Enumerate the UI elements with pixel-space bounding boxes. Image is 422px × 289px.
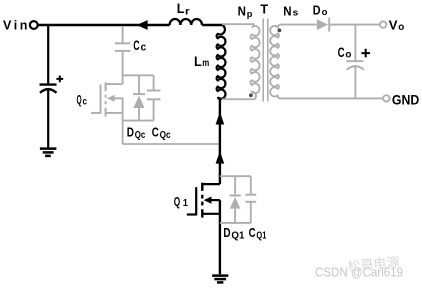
svg-text:L: L <box>194 54 202 69</box>
wire top main (Vin to Lr) <box>37 24 169 26</box>
label GND <box>392 92 420 107</box>
terminal Vo <box>380 21 386 27</box>
transformer winding Np <box>222 24 260 99</box>
wire Qc source down <box>122 98 124 145</box>
svg-text:o: o <box>398 21 404 33</box>
label + of Co <box>361 49 370 58</box>
watermark chinese <box>347 255 400 274</box>
phase dot Np <box>249 93 253 97</box>
svg-text:V: V <box>389 18 398 33</box>
svg-text:N: N <box>283 4 291 18</box>
ground (input) <box>40 149 57 156</box>
capacitor Cc <box>115 43 130 51</box>
wire Lr to Lm node <box>202 24 223 26</box>
arrow current up (below clamp junction) <box>216 151 225 164</box>
label DQc <box>127 125 146 141</box>
wire Cc branch from top wire <box>122 26 124 43</box>
label Np <box>238 4 253 19</box>
label T <box>260 2 268 17</box>
svg-text:r: r <box>185 5 190 17</box>
phase dot Ns <box>278 29 282 33</box>
transistor Qc (clamp MOSFET) <box>91 82 123 116</box>
svg-text:GND: GND <box>392 92 420 107</box>
wire Cc to clamp rail <box>122 52 124 85</box>
svg-text:s: s <box>293 8 299 18</box>
svg-text:o: o <box>345 48 351 60</box>
svg-text:Q: Q <box>174 195 181 209</box>
svg-text:D: D <box>313 4 321 18</box>
label Vin <box>3 18 30 32</box>
watermark CSDN <box>315 265 403 280</box>
transformer winding Ns <box>270 25 383 99</box>
label Cc <box>133 37 146 53</box>
svg-text:L: L <box>177 1 185 16</box>
wire primary node vertical <box>219 98 221 275</box>
wire Co branch <box>354 25 356 61</box>
ground (main, below Q1) <box>212 276 228 283</box>
svg-text:p: p <box>247 9 253 19</box>
svg-text:c: c <box>141 42 147 54</box>
label Lm <box>194 54 209 69</box>
svg-text:o: o <box>322 7 328 17</box>
svg-text:Q1: Q1 <box>231 231 244 242</box>
svg-text:D: D <box>223 226 230 240</box>
svg-text:Vin: Vin <box>3 18 30 32</box>
svg-text:C: C <box>249 226 256 240</box>
wire clamp rail bottom <box>123 120 154 122</box>
label Vo <box>389 18 405 33</box>
capacitor Cin (input electrolytic) <box>40 85 57 148</box>
capacitor CQ1 <box>245 176 256 223</box>
wire DQ1 rail bottom <box>220 222 251 224</box>
inductor Lr <box>170 19 202 25</box>
wire secondary top <box>329 24 380 26</box>
capacitor CQc <box>147 75 161 120</box>
wire Vin cap branch <box>47 25 49 83</box>
label Do <box>313 4 328 18</box>
svg-text:D: D <box>127 125 134 139</box>
label Co <box>338 45 352 60</box>
inductor Lm <box>217 25 226 99</box>
diode DQ1 <box>230 176 241 223</box>
terminal Vin <box>30 21 38 29</box>
arrow current left on top wire <box>137 20 148 30</box>
svg-text:N: N <box>238 4 246 18</box>
svg-text:Q: Q <box>77 93 82 107</box>
svg-text:Q1: Q1 <box>256 231 266 242</box>
terminal GND <box>383 95 389 101</box>
svg-text:c: c <box>83 96 88 107</box>
svg-text:Qc: Qc <box>135 130 146 141</box>
svg-text:C: C <box>133 37 139 53</box>
label CQ1 <box>249 226 267 242</box>
svg-text:C: C <box>338 45 345 60</box>
label Ns <box>283 4 298 18</box>
label CQc <box>152 125 171 141</box>
svg-text:Qc: Qc <box>160 130 171 141</box>
transformer core T <box>263 19 268 102</box>
label DQ1 <box>223 226 244 242</box>
svg-text:1: 1 <box>183 198 189 209</box>
transistor Q1 (main MOSFET) <box>187 183 220 218</box>
wire DQ1 rail top <box>220 175 251 177</box>
label Q1 <box>174 195 189 209</box>
label Qc <box>77 93 88 107</box>
svg-text:m: m <box>202 57 209 69</box>
svg-text:T: T <box>260 2 268 17</box>
wire clamp rail top <box>122 74 154 76</box>
label + of Cin <box>56 76 63 83</box>
wire clamp to primary node <box>123 143 220 145</box>
diode Do <box>317 18 329 32</box>
arrow current up (above clamp junction) <box>216 112 225 125</box>
svg-text:C: C <box>152 125 159 139</box>
capacitor Co (output electrolytic) <box>346 61 364 98</box>
label Lr <box>177 1 190 18</box>
diode DQc <box>133 75 145 120</box>
